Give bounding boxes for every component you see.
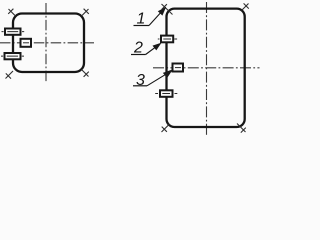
svg-text:3: 3 xyxy=(136,72,145,89)
svg-text:1: 1 xyxy=(137,10,146,27)
